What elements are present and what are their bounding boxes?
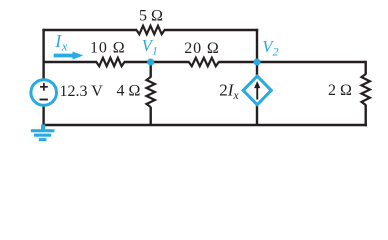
wire: middle rail segment D (20-ohm to node V2) [218,61,257,63]
wire: V2 branch lower stub (diamond to bottom rail) [256,104,258,125]
wire: right vertical upper stub [365,61,367,75]
svg-text:2 Ω: 2 Ω [328,82,352,99]
dependent current source D1 diamond (2Ix) [243,76,271,105]
svg-text:2Ix: 2Ix [219,81,239,102]
ground symbol (blue) [31,124,55,141]
resistor 10-ohm zigzag (middle rail) [96,58,124,66]
voltage source VS1 circle (12.3 V independent source) [31,80,57,106]
wire: middle rail segment C (node V1 to 20-ohm) [151,61,190,63]
wire: top wire left segment [42,29,137,31]
wire: V1 branch upper stub [149,62,151,77]
wire: left branch below voltage source [42,105,44,125]
node V2 junction dot [254,59,261,66]
svg-text:Ix: Ix [54,31,68,54]
svg-text:4 Ω: 4 Ω [117,83,141,100]
wire: middle rail segment B (10-ohm to node V1) [124,61,151,63]
wire: bottom rail [44,124,367,126]
wire: top wire right segment [164,29,258,31]
resistor 20-ohm zigzag (middle rail) [189,58,219,66]
dependent source arrow (points up) [254,81,260,100]
wire: middle horizontal rail segment A (left vertical to 10-ohm) [44,61,97,63]
wire: left vertical branch top (corner to source) [42,29,44,80]
voltage source plus sign [40,83,48,91]
wire: right vertical lower stub [365,105,367,127]
resistor 2-ohm zigzag (right branch, vertical) [362,74,370,105]
wire: V2 branch upper stub (node to diamond) [256,62,258,77]
resistor 4-ohm zigzag (V1 branch, vertical) [147,77,155,107]
wire: right drop from top wire to node V2 [256,29,258,62]
svg-text:10 Ω: 10 Ω [90,40,126,57]
node V1 junction dot [147,59,154,66]
wire: V1 branch lower stub [149,107,151,125]
resistor 5-ohm zigzag (top wire) [137,26,165,34]
wire: middle rail segment E (node V2 to right branch) [257,61,366,63]
svg-text:12.3 V: 12.3 V [60,83,104,100]
svg-text:V2: V2 [262,37,278,59]
svg-text:V1: V1 [142,36,158,57]
voltage source minus sign [40,99,48,101]
current Ix direction arrow (blue) [54,52,84,60]
svg-text:5 Ω: 5 Ω [139,7,163,24]
svg-text:20 Ω: 20 Ω [184,40,220,57]
